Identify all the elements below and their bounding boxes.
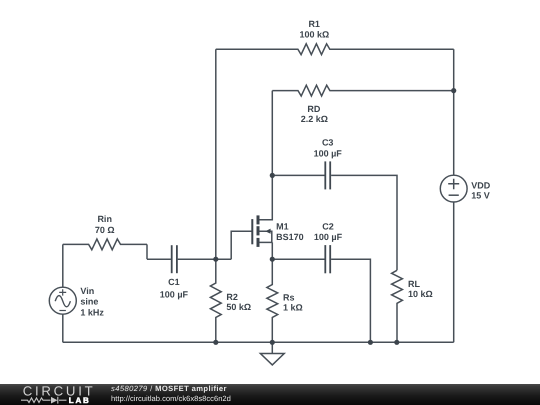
svg-text:sine: sine xyxy=(80,296,98,306)
svg-text:s4580279 / MOSFET amplifier: s4580279 / MOSFET amplifier xyxy=(111,384,227,393)
svg-text:C3: C3 xyxy=(322,137,334,147)
svg-text:100 µF: 100 µF xyxy=(160,289,189,299)
svg-text:100 kΩ: 100 kΩ xyxy=(300,29,330,39)
svg-text:RD: RD xyxy=(307,104,320,114)
svg-text:70 Ω: 70 Ω xyxy=(95,225,115,235)
svg-text:C2: C2 xyxy=(322,221,334,231)
svg-text:50 kΩ: 50 kΩ xyxy=(226,302,251,312)
svg-text:C1: C1 xyxy=(168,277,180,287)
svg-text:LAB: LAB xyxy=(69,396,91,405)
svg-text:R2: R2 xyxy=(226,292,238,302)
svg-text:Rs: Rs xyxy=(283,292,295,302)
svg-text:2.2 kΩ: 2.2 kΩ xyxy=(301,114,328,124)
svg-text:100 µF: 100 µF xyxy=(314,148,343,158)
svg-text:BS170: BS170 xyxy=(276,232,304,242)
svg-text:1 kΩ: 1 kΩ xyxy=(283,303,303,313)
svg-text:1 kHz: 1 kHz xyxy=(80,307,104,317)
svg-text:http://circuitlab.com/ck6x8s8c: http://circuitlab.com/ck6x8s8cc6n2d xyxy=(111,394,231,403)
svg-text:100 µF: 100 µF xyxy=(314,232,343,242)
svg-text:VDD: VDD xyxy=(471,181,491,191)
svg-text:10 kΩ: 10 kΩ xyxy=(408,289,433,299)
svg-text:Vin: Vin xyxy=(80,286,94,296)
svg-text:RL: RL xyxy=(408,279,420,289)
svg-text:M1: M1 xyxy=(276,221,289,231)
svg-text:R1: R1 xyxy=(308,19,320,29)
svg-text:15 V: 15 V xyxy=(471,191,490,201)
svg-text:Rin: Rin xyxy=(97,214,112,224)
